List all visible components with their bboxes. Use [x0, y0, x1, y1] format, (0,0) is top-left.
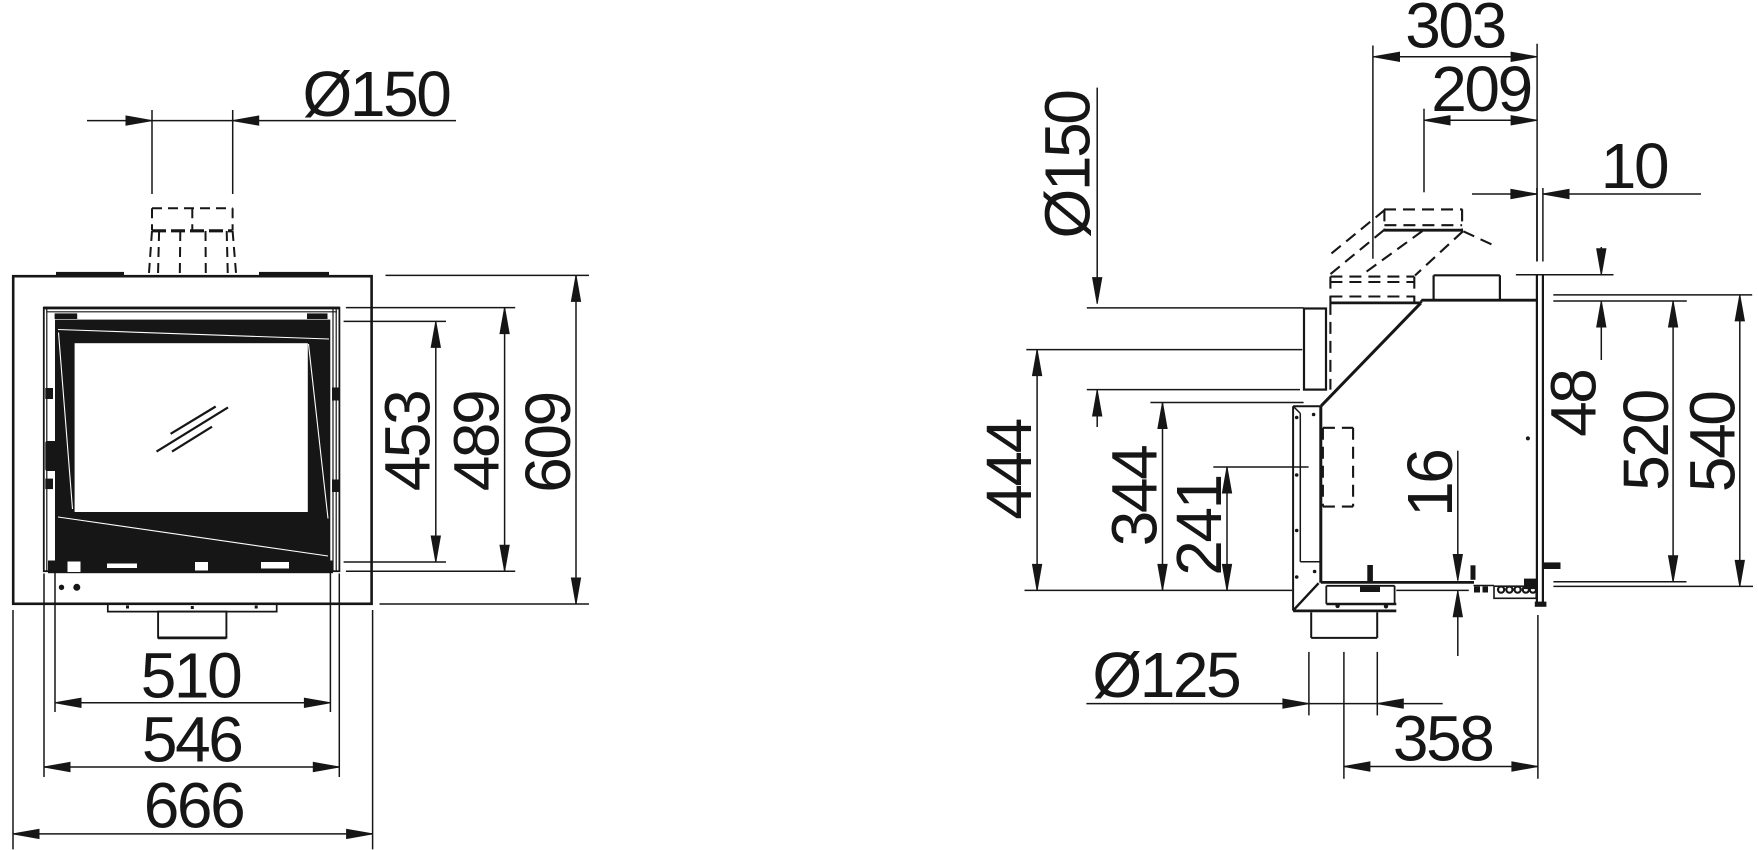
- door panel (black) 510x453: [55, 320, 330, 561]
- dim Ø125: [1086, 652, 1442, 779]
- svg-text:444: 444: [973, 419, 1045, 519]
- dim 10: [1472, 188, 1701, 262]
- latch block top-right: [332, 388, 340, 401]
- bottom strip under door: [48, 561, 333, 574]
- tray tick marks: [126, 606, 129, 609]
- bolt on bottom: [1367, 565, 1373, 582]
- dim 510: [55, 564, 330, 712]
- dim 209: [1424, 109, 1537, 193]
- svg-text:358: 358: [1393, 703, 1493, 775]
- ash box side: [1326, 586, 1394, 604]
- svg-text:510: 510: [141, 640, 241, 712]
- dim 520: [1553, 301, 1687, 582]
- svg-text:Ø150: Ø150: [1032, 91, 1104, 239]
- control knobs: [59, 585, 64, 590]
- svg-text:241: 241: [1163, 476, 1235, 576]
- casing outer box: [13, 276, 371, 604]
- feet rivets: [1335, 604, 1339, 608]
- body bottom: [1321, 581, 1474, 584]
- dim 540: [1553, 295, 1753, 587]
- dim 48: [1516, 247, 1614, 360]
- dim 344: [1150, 403, 1303, 591]
- ash box front: [158, 612, 226, 638]
- svg-text:489: 489: [441, 392, 513, 492]
- top corner blocks: [55, 313, 78, 319]
- svg-text:16: 16: [1394, 451, 1466, 517]
- dim 609: [380, 275, 590, 604]
- svg-text:609: 609: [512, 393, 584, 493]
- dim 489: [346, 308, 515, 572]
- sloped back top: [1321, 303, 1421, 406]
- hinge block bottom-left: [45, 479, 53, 490]
- top vent line: [47, 311, 337, 313]
- glass window: [75, 343, 308, 512]
- rear collar solid: [1304, 309, 1326, 390]
- latch block bottom-right: [332, 480, 340, 493]
- latch: [1360, 587, 1380, 592]
- dim 666: [13, 610, 373, 849]
- svg-text:10: 10: [1601, 130, 1668, 202]
- back wall: [1319, 406, 1322, 583]
- top adapter plate: [1383, 229, 1463, 232]
- flue collar (front, dashed): [149, 208, 236, 275]
- dim 453: [344, 321, 446, 562]
- frame plate: [1536, 275, 1538, 603]
- glass reflection: [157, 407, 229, 452]
- dim 241: [1213, 467, 1308, 590]
- back heat shield: [1293, 406, 1321, 610]
- dashed duct diagonals: [1331, 210, 1385, 254]
- bottom closure plate: [1293, 610, 1396, 613]
- dim 358: [1344, 615, 1538, 779]
- svg-text:48: 48: [1538, 371, 1610, 437]
- terminal strip: [1494, 586, 1536, 598]
- dim 16: [1457, 451, 1459, 656]
- rear adapter plate: [1330, 301, 1421, 304]
- top trim strip left: [56, 272, 124, 276]
- dim Ø150 side: [1087, 88, 1304, 427]
- door handle: [45, 441, 57, 471]
- bevel hairlines: [58, 330, 329, 557]
- door frame 546x489: [44, 308, 340, 572]
- dashed firebox back: [1322, 428, 1324, 507]
- dim Ø150 front: [87, 110, 456, 194]
- top trim strip right: [259, 272, 329, 276]
- hinge block top-left: [45, 388, 53, 399]
- dim 546: [44, 574, 339, 778]
- frame inner rails: [46, 309, 48, 571]
- bottom back diagonal: [1293, 583, 1319, 610]
- front view dimension texts: [141, 58, 584, 842]
- dashed hidden: top flue adapter: [1323, 209, 1493, 506]
- svg-text:453: 453: [372, 392, 444, 492]
- mounting lug: [1543, 562, 1561, 569]
- svg-text:Ø125: Ø125: [1092, 639, 1239, 711]
- dashed rear adapter box: [1330, 276, 1414, 278]
- dashed flue bore below: [1329, 303, 1331, 390]
- shield rivets: [1295, 413, 1530, 579]
- svg-text:666: 666: [144, 770, 244, 842]
- top collar solid: [1434, 275, 1500, 300]
- bottom duct: [1311, 612, 1377, 638]
- svg-text:546: 546: [142, 704, 242, 776]
- svg-text:540: 540: [1677, 392, 1749, 492]
- svg-text:Ø150: Ø150: [303, 58, 451, 130]
- dim 444: [1026, 350, 1302, 591]
- shared bottom extension: [1025, 589, 1293, 591]
- bottom tray lip: [108, 605, 277, 612]
- svg-text:520: 520: [1610, 390, 1682, 490]
- bolt right: [1471, 565, 1476, 580]
- body top: [1421, 299, 1537, 302]
- svg-text:209: 209: [1431, 53, 1531, 125]
- dim 303: [1373, 44, 1537, 262]
- svg-text:344: 344: [1099, 446, 1171, 546]
- side view dimension texts: [973, 0, 1749, 775]
